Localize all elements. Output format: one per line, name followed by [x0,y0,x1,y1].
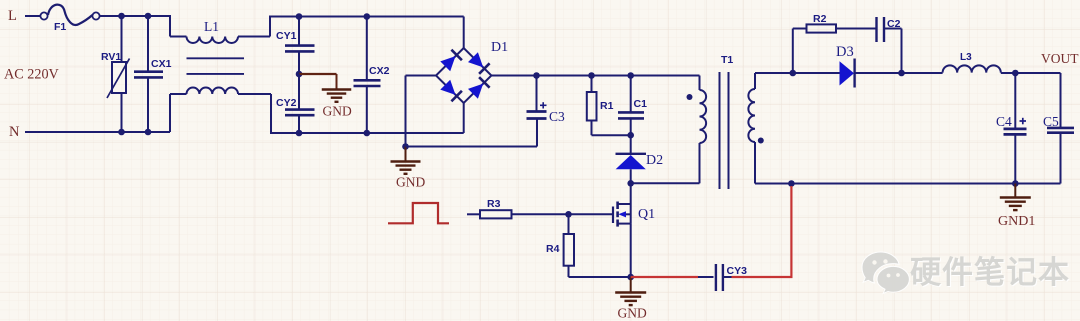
wire lower rail into bridge [463,103,465,133]
wire secondary top rail [755,72,793,74]
output capacitor C4 (polarized) [996,73,1027,184]
junction Q1 source / R4 / GND / CY3 [627,274,634,281]
gate drive pulse symbol [388,203,449,223]
wire L1 bottom to lower rail [270,94,464,133]
watermark logo and text [862,252,1070,293]
ground GND1 (secondary) [998,184,1035,230]
junction C1 top [627,72,634,79]
primary phasing dot [687,94,693,100]
svg-text:CX2: CX2 [369,65,390,77]
svg-text:D2: D2 [646,153,663,168]
wire L to fuse [25,15,40,17]
svg-text:T1: T1 [721,54,733,66]
junction CX2 top [364,13,371,20]
label T1 [721,54,733,66]
node N (neutral input terminal) [9,124,20,140]
svg-text:D1: D1 [491,40,508,55]
svg-text:L: L [8,8,17,24]
wire L3 to output [1001,72,1061,74]
svg-text:C2: C2 [887,18,901,30]
svg-text:RV1: RV1 [101,51,121,63]
Y-capacitor CY3 [698,264,747,291]
net label VOUT [1041,51,1079,66]
junction bridge ground node [402,143,409,150]
ground GND (source) [615,277,647,321]
svg-text:Q1: Q1 [638,207,655,222]
capacitor C1 [618,76,647,136]
bridge diode D1b (top to right) [468,52,490,74]
junction D3/C2 right node [898,70,905,77]
output diode D3 [793,44,902,88]
bridge diode D1c (left to bottom) [440,80,462,102]
capacitor C3 (bulk, polarized) [527,76,566,125]
transformer T1 primary winding [700,76,707,144]
svg-text:R1: R1 [600,100,614,112]
diode D2 (clamp) [616,135,664,183]
wire top rail into bridge [463,17,465,49]
wire L1 to top rail [270,16,464,37]
junction CY1 top [296,13,303,20]
junction CY2 bottom [296,130,303,137]
wire secondary bottom lead [755,142,1061,184]
junction R1/C1/D2 [627,132,634,139]
svg-text:GND: GND [618,306,647,321]
svg-text:N: N [9,124,20,140]
junction R1 top [588,72,595,79]
junction at RV1 top [118,13,125,20]
svg-text:AC 220V: AC 220V [4,67,60,83]
node L (line input terminal) [8,8,17,24]
bridge rectifier D1 outline [436,48,491,103]
svg-text:C5: C5 [1043,114,1059,129]
capacitor CX2 [354,17,390,134]
junction C4 bottom / GND1 [1012,180,1019,187]
snubber capacitor C2 [877,17,902,73]
gate resistor R3 [467,198,569,218]
svg-text:R2: R2 [813,13,827,25]
resistor R1 [587,76,631,136]
transformer T1 secondary winding [748,73,755,142]
snubber resistor R2 [793,13,876,73]
svg-text:CY2: CY2 [276,97,297,109]
svg-text:GND: GND [323,104,352,119]
capacitor CX1 [134,16,172,132]
svg-text:VOUT: VOUT [1041,51,1079,66]
bridge diode D1a (left to top) [440,50,462,72]
wire negative rail to C3 [406,119,538,147]
junction D2/Q1 drain/primary [627,180,634,187]
common-mode choke L1 [170,19,271,132]
wire D3 node to L3 [902,72,943,74]
junction D3/R2 left node [790,70,797,77]
wire CY3 to secondary return (highlighted) [732,186,792,277]
wire fuse to filter (top rail) [100,16,171,37]
junction at RV1 bottom [118,129,125,136]
net label AC 220V [4,67,60,83]
svg-text:CY3: CY3 [727,265,748,277]
label D1 [491,40,508,55]
junction CY1-CY2 midpoint [296,71,303,78]
junction C4 top [1012,70,1019,77]
svg-text:CY1: CY1 [276,30,297,42]
junction secondary return / CY3 riser [788,180,795,187]
junction C3 top [533,72,540,79]
svg-text:GND: GND [396,175,425,190]
svg-text:L3: L3 [960,52,972,63]
wire N line [25,131,170,133]
svg-text:C1: C1 [634,98,648,110]
secondary phasing dot [758,138,764,144]
wire source node to CY3 (highlighted) [631,276,698,278]
junction R3/R4/gate [565,211,572,218]
wire bridge negative to ground node [406,76,437,147]
varistor RV1 [101,16,130,132]
MOSFET Q1 [569,183,656,277]
fuse F1 [40,5,99,33]
junction CX2 bottom [364,130,371,137]
wire primary bottom lead [631,143,700,183]
output capacitor C5 [1043,73,1074,184]
svg-text:GND1: GND1 [998,214,1035,229]
ground GND (bridge negative) [391,147,426,190]
svg-text:硬件笔记本: 硬件笔记本 [910,255,1070,290]
svg-text:R3: R3 [487,198,501,210]
svg-text:D3: D3 [836,44,854,60]
svg-text:C3: C3 [549,109,565,124]
ground GND (between CY1 and CY2) [299,74,352,119]
junction at CX1 top [145,13,152,20]
capacitor CY1 [276,17,315,75]
gate pulldown resistor R4 [546,214,631,277]
svg-text:CX1: CX1 [151,58,172,70]
output inductor L3 [943,52,1001,73]
transformer T1 core [720,72,729,189]
svg-text:R4: R4 [546,243,560,255]
bridge diode D1d (bottom to right) [468,77,490,99]
capacitor CY2 [276,74,315,133]
svg-text:L1: L1 [204,19,219,34]
svg-text:C4: C4 [996,114,1012,129]
wire DC+ rail (bridge to transformer) [491,75,699,77]
junction at CX1 bottom [145,129,152,136]
svg-text:F1: F1 [54,21,66,33]
